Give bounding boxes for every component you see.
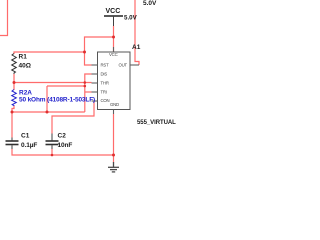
svg-text:5.0V: 5.0V xyxy=(143,0,157,7)
svg-text:C2: C2 xyxy=(58,133,67,140)
svg-text:TRI: TRI xyxy=(101,90,107,95)
svg-text:R2A: R2A xyxy=(19,90,32,97)
svg-text:50 kOhm (4108R-1-503LF): 50 kOhm (4108R-1-503LF) xyxy=(19,97,95,104)
svg-text:RST: RST xyxy=(101,63,110,68)
svg-text:OUT: OUT xyxy=(119,63,128,68)
svg-text:0.1µF: 0.1µF xyxy=(21,142,37,149)
svg-text:555_VIRTUAL: 555_VIRTUAL xyxy=(137,120,176,126)
svg-text:DIS: DIS xyxy=(101,72,108,77)
svg-text:A1: A1 xyxy=(132,44,141,51)
svg-text:5.0V: 5.0V xyxy=(124,15,138,22)
svg-text:GND: GND xyxy=(110,102,119,107)
svg-text:C1: C1 xyxy=(21,133,30,140)
svg-text:THR: THR xyxy=(101,81,109,86)
svg-text:CON: CON xyxy=(101,98,110,103)
svg-text:40Ω: 40Ω xyxy=(19,63,31,70)
svg-text:R1: R1 xyxy=(19,54,28,61)
svg-text:VCC: VCC xyxy=(109,52,118,57)
svg-text:VCC: VCC xyxy=(106,8,121,15)
svg-text:10nF: 10nF xyxy=(58,142,73,149)
